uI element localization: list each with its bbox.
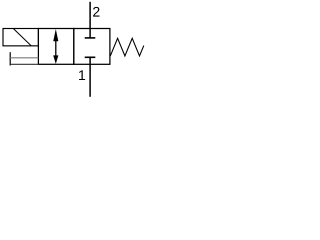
port 2 label [93, 7, 99, 17]
spring (right side) [110, 38, 144, 56]
manual override lower line [10, 63, 38, 65]
blocked port T (top) in right square [85, 29, 96, 38]
port 1 label [79, 70, 85, 80]
port 1 wire (bottom) [89, 64, 91, 97]
solenoid diagonal slash [13, 29, 31, 46]
solenoid box [3, 29, 38, 46]
port 2 wire (top) [89, 2, 91, 29]
valve body right square (blocked position) [74, 29, 110, 65]
manual override upper line (gray) [10, 57, 38, 59]
valve body left square (flow position) [38, 29, 73, 65]
flow arrow (double-headed) in left square [53, 29, 58, 64]
blocked port T (bottom) in right square [85, 57, 96, 64]
manual override tick (vertical bar) [9, 52, 11, 65]
